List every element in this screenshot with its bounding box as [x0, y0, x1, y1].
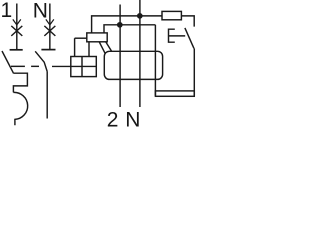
test button actuator E	[169, 29, 186, 42]
relay top pin 1 and wire to resistor	[92, 16, 162, 33]
svg-text:1: 1	[1, 0, 13, 22]
test button box	[71, 57, 97, 77]
magnetic trip coil (bowl)	[13, 92, 27, 125]
contact X pole 1	[11, 26, 22, 36]
junction dot N/wire1	[137, 13, 143, 19]
wire pole 1 vertical	[16, 4, 18, 50]
thermal trip element pole 1	[13, 73, 27, 92]
wire pole N down	[46, 72, 48, 119]
test resistor	[162, 11, 181, 19]
N conductor through CT	[139, 0, 141, 107]
latch lever stroke 2	[106, 42, 112, 52]
junction dot phase/wire2	[117, 22, 123, 28]
test circuit left wire down	[154, 25, 156, 96]
test box cross vertical	[81, 57, 83, 77]
mechanical link dash 1	[11, 65, 25, 67]
mechanical link dash 2	[31, 65, 39, 67]
stub right into test box	[88, 42, 90, 57]
contact X pole N	[44, 26, 55, 36]
mechanical link dash 3	[52, 65, 71, 67]
svg-text:2: 2	[107, 109, 119, 129]
CT torus	[104, 51, 162, 79]
trip relay box	[87, 33, 107, 42]
terminal label N (top)	[33, 0, 48, 22]
relay left wire	[75, 37, 87, 39]
phase conductor through CT	[119, 5, 121, 108]
functional element box bottom right	[155, 91, 194, 96]
latch lever stroke 1	[99, 42, 105, 54]
terminal arrow pole 1	[13, 19, 21, 25]
test contact blade	[185, 28, 194, 48]
terminal arrow pole N	[46, 19, 54, 25]
breaker blade pole 1	[2, 51, 14, 73]
terminal label 1	[1, 0, 13, 22]
test box cross horizontal	[71, 65, 97, 67]
terminal label 2 (bottom)	[107, 109, 119, 132]
wire resistor to test contact	[181, 16, 194, 27]
wire pole N vertical	[49, 4, 51, 50]
fixed contact T-bar pole 1	[10, 49, 23, 51]
breaker blade pole N	[35, 51, 47, 71]
relay top pin 2 and wire right	[104, 25, 155, 33]
svg-text:N: N	[33, 0, 48, 22]
svg-text:N: N	[125, 109, 140, 129]
test wire down right	[193, 48, 195, 96]
stub left into test box	[74, 38, 76, 56]
terminal label N (bottom)	[125, 109, 140, 132]
fixed contact T-bar pole N	[41, 49, 55, 51]
